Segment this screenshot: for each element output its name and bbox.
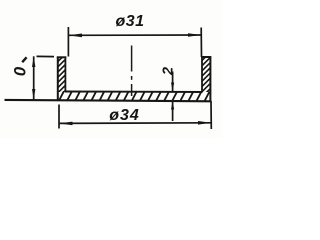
dim 2: lower leader line [172, 101, 174, 121]
dim 10: bottom arrow [32, 89, 35, 100]
dim ø31: dimension line [68, 34, 201, 36]
part outline: left wall outer edge [57, 57, 59, 100]
part outline: left wall inner edge [64, 57, 66, 92]
part outline: left wall top edge [57, 56, 67, 58]
centerline (dash-dot) [131, 46, 133, 72]
dim 2: upper leader line [172, 72, 174, 92]
dim ø34: right extension line [210, 101, 212, 129]
dim ø34: left extension line [58, 105, 60, 129]
dim 10: label digit 1 (hand slash) [22, 57, 26, 62]
part outline: right wall outer edge [209, 57, 211, 101]
section hatching: left wall [57, 53, 68, 100]
svg-text:0: 0 [10, 66, 29, 76]
dim ø31: left arrow [68, 34, 82, 38]
svg-text:2: 2 [160, 67, 176, 76]
dim ø31: right arrow [188, 33, 201, 37]
dim ø34: right arrow [198, 121, 211, 125]
svg-text:ø34: ø34 [109, 107, 140, 124]
dim ø34: dimension line [59, 122, 211, 125]
section hatching: bottom plate [58, 90, 210, 103]
dim ø31: left extension line [67, 27, 69, 57]
dim ø34: left arrow [59, 122, 73, 126]
dim 2: lower arrow (up) [171, 101, 174, 110]
svg-text:ø31: ø31 [115, 13, 144, 30]
dim 10: top arrow [32, 56, 35, 67]
part outline: bottom edge / baseline extension [5, 100, 212, 101]
dim 10: top extension tick [37, 55, 55, 57]
dim ø31: right extension line [200, 28, 202, 58]
part outline: cavity floor [65, 91, 203, 94]
dim 2: upper arrow (down) [171, 83, 174, 92]
section hatching: right wall [201, 51, 212, 98]
part outline: right wall top edge [201, 56, 211, 58]
part outline: right wall inner edge [201, 57, 203, 92]
dim 10: dimension line [33, 56, 35, 99]
